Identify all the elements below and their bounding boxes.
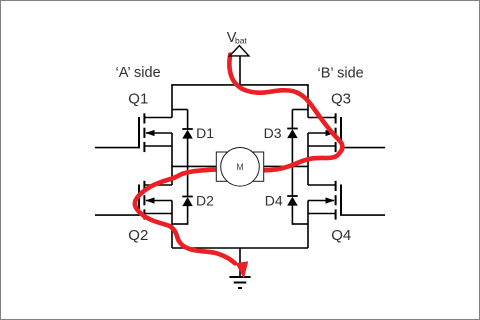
wire motor row left [172, 165, 217, 167]
wire branch to D1 [172, 109, 188, 111]
wire right mid vertical [307, 133, 309, 166]
wire Q1 source lead [144, 145, 172, 147]
svg-text:D2: D2 [196, 192, 214, 208]
transistor Q3 [336, 113, 341, 152]
wire Q1 gate lead [95, 147, 139, 149]
wire motor row right [263, 165, 308, 167]
svg-text:Q2: Q2 [128, 227, 148, 244]
wire D3 column upper [291, 110, 293, 129]
diode D3 [287, 129, 298, 139]
diode D1 [182, 129, 193, 139]
svg-text:Q1: Q1 [128, 90, 148, 107]
wire right trunk upper [307, 84, 309, 117]
wire D2 column lower [187, 206, 189, 225]
wire branch to D2 [172, 223, 188, 225]
wire top rail [172, 84, 308, 86]
wire D4 column upper [291, 166, 293, 196]
wire Q3 drain lead [308, 117, 336, 119]
diode D2 [182, 197, 193, 207]
wire branch to D4 [292, 223, 308, 225]
red arrowhead at ground [236, 261, 249, 279]
wire Q3 gate lead [341, 147, 385, 149]
transistor Q1 [139, 113, 144, 152]
wire ground stem [239, 248, 241, 277]
wire right trunk lower [307, 201, 309, 249]
svg-text:M: M [236, 162, 244, 172]
wire branch to D3 [292, 109, 308, 111]
wire Q1 drain lead [144, 117, 172, 119]
wire bottom rail [172, 247, 308, 249]
transistor Q4 [336, 181, 341, 220]
wire D1 column upper [187, 110, 189, 130]
diode D4 [287, 196, 298, 206]
wire left mid vertical [171, 133, 173, 166]
wire D1 column lower [187, 138, 189, 167]
svg-text:D1: D1 [196, 125, 214, 141]
wire D2 column upper [187, 166, 189, 197]
wire red current path [229, 55, 342, 171]
wire right trunk to Q4 drain [307, 166, 309, 185]
svg-text:Q3: Q3 [331, 90, 351, 107]
wire Q4 body line [308, 200, 334, 202]
wire Q3 source lead [308, 145, 336, 147]
svg-text:D3: D3 [264, 125, 282, 141]
wire left trunk lower [171, 201, 173, 249]
wire Vbat stem [239, 56, 241, 85]
wire Q4 source lead [308, 213, 336, 215]
Vbat arrow symbol [230, 46, 249, 56]
svg-text:‘A’ side: ‘A’ side [116, 65, 161, 81]
wire Q2 gate lead [95, 214, 139, 216]
wire left trunk to Q2 drain [171, 166, 173, 185]
wire Q2 drain lead [144, 184, 172, 186]
wire Q2 source lead [144, 213, 172, 215]
svg-text:‘B’ side: ‘B’ side [318, 66, 364, 82]
svg-text:D4: D4 [265, 192, 283, 208]
wire Q3 body line [308, 132, 334, 134]
wire D4 column lower [291, 205, 293, 225]
motor M [216, 148, 263, 187]
wire D3 column lower [291, 138, 293, 168]
wire Q1 body line [146, 132, 172, 134]
wire Q2 body line [146, 200, 172, 202]
transistor Q2 [139, 181, 144, 220]
ground [229, 277, 250, 288]
wire Q4 drain lead [308, 184, 336, 186]
svg-text:Q4: Q4 [331, 227, 351, 244]
wire Q4 gate lead [341, 214, 385, 216]
wire left trunk upper [171, 84, 173, 117]
